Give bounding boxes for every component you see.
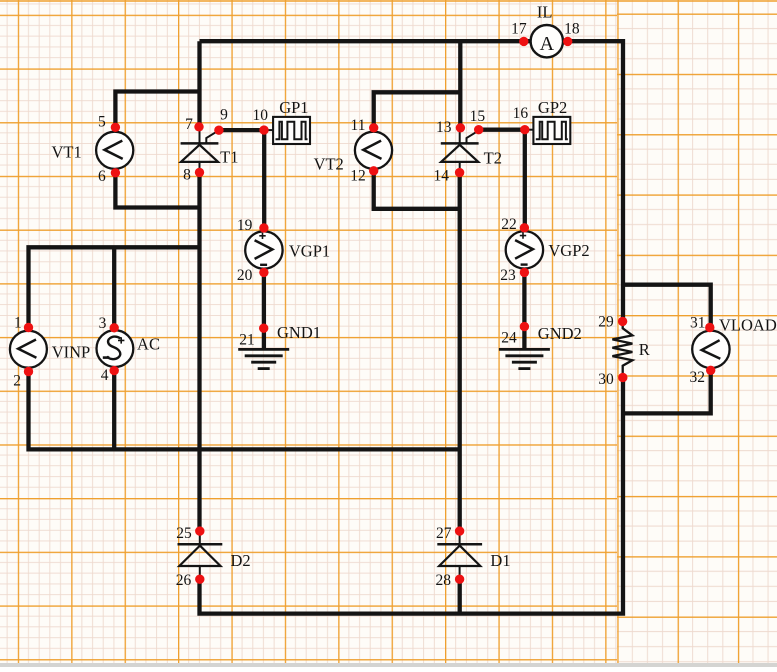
svg-text:VGP1: VGP1 [289,242,330,261]
svg-text:R: R [639,340,650,359]
svg-text:GP1: GP1 [279,98,308,117]
lead GP1 [265,129,274,131]
svg-text:16: 16 [513,105,529,122]
node 13 [456,123,465,132]
svg-text:GND2: GND2 [538,324,582,343]
svg-text:GND1: GND1 [277,323,321,342]
svg-text:29: 29 [598,314,614,331]
node 4 [110,366,119,375]
top edge grid major line [0,0,777,2]
svg-text:GP2: GP2 [538,98,567,117]
svg-text:22: 22 [501,216,517,233]
wire VLOAD branch top [623,285,711,328]
svg-text:2: 2 [13,373,21,390]
thin component leads [200,127,534,579]
svg-text:19: 19 [237,217,253,234]
wire bottom rail: D2 down, across, up to node 30 [200,376,624,613]
svg-text:27: 27 [436,525,452,542]
node 23 [520,268,529,277]
svg-text:VT2: VT2 [314,154,344,173]
svg-text:VLOAD: VLOAD [719,316,777,335]
wire VT2 top branch [374,92,462,128]
wire D1 bottom [458,579,462,614]
wire T1 top vertical [197,41,201,127]
wire VGP1 bottom to GND1 [262,272,266,349]
source VGP2 [506,231,543,268]
svg-text:21: 21 [239,332,255,349]
grid background right [617,0,777,667]
lead T1 [199,127,201,172]
thyristor T2 [441,130,479,162]
grid background left [0,0,617,667]
wire gate2 node15 to node16 [479,128,525,132]
svg-text:6: 6 [98,168,106,185]
svg-text:31: 31 [690,315,706,332]
node 16 [520,125,529,134]
bottom sheet edge [0,663,777,667]
svg-text:15: 15 [470,108,486,125]
svg-text:24: 24 [501,330,517,347]
lead D2 [199,531,201,579]
svg-text:T1: T1 [220,148,238,167]
node 15 [474,125,483,134]
wire T2 anode chain down to D1 [458,172,462,531]
diode D1 [437,544,482,566]
wire VT1 top branch [115,92,201,129]
node 32 [706,366,715,375]
wire node16 down to node22 [523,130,527,228]
ground GND1 [238,349,289,368]
lead GND1 [263,328,265,349]
node 25 [195,526,204,535]
node 29 [618,317,627,326]
node 7 [194,122,203,131]
source VGP1 [245,231,282,268]
svg-text:AC: AC [137,334,160,353]
node 22 [520,223,529,232]
wire AC bottom branch [112,371,116,449]
node 21 [259,324,268,333]
node 20 [259,268,268,277]
ammeter IL [531,25,563,57]
wire left loop top: VINP up, across to T1 chain [29,247,200,328]
svg-text:4: 4 [101,367,109,384]
svg-text:25: 25 [176,525,192,542]
node 31 [705,323,714,332]
node 5 [111,123,120,132]
svg-text:13: 13 [436,119,452,136]
svg-text:7: 7 [185,116,193,133]
wire T1 anode chain down to D2 [197,172,201,531]
lead GND2 [523,327,525,350]
svg-text:14: 14 [433,168,449,185]
svg-text:VT1: VT1 [51,143,81,162]
svg-text:D1: D1 [490,551,510,570]
node 6 [111,168,120,177]
svg-text:3: 3 [99,315,107,332]
node 11 [369,123,378,132]
lead T2 [459,128,461,172]
wire AC top branch [112,247,116,328]
wire node10 down to node19 [262,130,266,228]
wire T2 top vertical [458,41,462,128]
svg-text:11: 11 [351,117,366,134]
wire VLOAD branch bottom [623,371,711,414]
svg-text:17: 17 [511,21,527,38]
wire VT1 bottom branch [115,172,201,208]
svg-text:32: 32 [689,369,705,386]
svg-text:10: 10 [252,107,268,124]
svg-text:23: 23 [500,267,516,284]
node dots [24,37,716,584]
svg-text:18: 18 [564,21,580,38]
node 30 [618,373,627,382]
node 8 [195,168,204,177]
pulse generator GP2 [533,117,570,144]
node 27 [455,526,464,535]
node 19 [259,223,268,232]
svg-text:20: 20 [237,267,253,284]
voltmeter VT1 [96,132,133,169]
node 18 [563,37,572,46]
svg-text:12: 12 [350,168,366,185]
node 9 [214,126,223,135]
svg-text:VINP: VINP [52,342,91,361]
svg-text:A: A [540,33,555,55]
wire VGP2 bottom to GND2 [522,272,526,349]
node 12 [369,166,378,175]
wire top rail and right rail down to node 29 [200,41,624,321]
svg-text:D2: D2 [231,551,251,570]
svg-text:5: 5 [98,113,106,130]
lead GP2 [525,129,534,131]
svg-text:VGP2: VGP2 [548,241,589,260]
wire VT2 bottom branch [374,171,461,209]
node 24 [520,322,529,331]
svg-text:1: 1 [14,315,22,332]
wire gate1 node9 to node10 [219,128,265,132]
voltmeter VLOAD [692,331,729,368]
voltmeter VINP [10,331,47,368]
node 3 [110,323,119,332]
source AC [97,330,134,367]
wire bottom loop: VINP down, across to T2 chain [29,371,460,449]
node 14 [455,168,464,177]
pulse generator GP1 [273,117,310,144]
node 17 [519,37,528,46]
svg-text:26: 26 [176,572,192,589]
voltmeter VT2 [355,132,392,169]
node 26 [195,575,204,584]
svg-text:T2: T2 [484,149,502,168]
svg-text:28: 28 [436,572,452,589]
svg-text:8: 8 [183,166,191,183]
diode D2 [178,544,223,566]
node 28 [455,575,464,584]
node 2 [24,367,33,376]
svg-text:IL: IL [537,3,553,22]
node 10 [259,125,268,134]
svg-text:30: 30 [598,371,614,388]
svg-text:9: 9 [220,106,228,123]
node 1 [24,323,33,332]
ground GND2 [499,349,550,368]
lead D1 [459,531,461,579]
resistor R [612,322,632,377]
thyristor T1 [181,130,219,162]
